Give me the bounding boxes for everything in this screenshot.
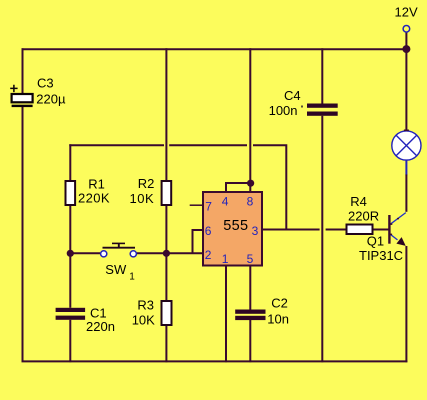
label R2 value 10K (130, 191, 155, 206)
wire pin 1 to bottom rail (225, 266, 227, 363)
wire pin 6 to pin 2 loop (193, 230, 204, 253)
label C3 value 220µ (36, 92, 66, 107)
pin 3 (252, 224, 259, 238)
label R3 (137, 298, 154, 313)
svg-text:100n: 100n (269, 103, 298, 118)
svg-text:R1: R1 (88, 177, 105, 192)
wire top rail 12V (22, 48, 408, 50)
svg-text:R4: R4 (350, 194, 367, 209)
wire lamp to collector blue stub (405, 160, 407, 175)
pin 6 (205, 224, 212, 238)
svg-text:6: 6 (205, 224, 212, 238)
wire SW1 left segment (70, 252, 100, 254)
capacitor C4 (307, 104, 338, 116)
wire feedback horizontal segment 1 (69, 144, 164, 146)
label R3 value 10K (132, 313, 155, 328)
resistor R2 (162, 181, 172, 205)
transistor Q1 emitter line (390, 234, 398, 240)
wire C4 branch lower to bottom rail (321, 116, 323, 362)
transistor Q1 collector line (390, 213, 406, 225)
svg-text:220R: 220R (348, 208, 379, 223)
lamp top connection tick (404, 130, 409, 132)
wire bottom rail (22, 360, 408, 362)
wire left rail lower (C3 to bottom) (22, 107, 24, 362)
svg-text:1: 1 (129, 272, 135, 283)
label C2 value 10n (267, 312, 289, 327)
wire pin 7 stub (190, 204, 203, 206)
svg-text:SW: SW (105, 262, 127, 277)
resistor R3 (162, 301, 172, 325)
switch SW1 (101, 243, 137, 257)
label Q1 (367, 233, 384, 248)
svg-text:C3: C3 (37, 76, 54, 91)
wire C4 branch upper (321, 48, 323, 103)
svg-text:R3: R3 (137, 298, 154, 313)
wire right rail junction to lamp (405, 49, 407, 131)
wire feedback horizontal segment 2 (169, 144, 247, 146)
label R4 value 220R (348, 208, 379, 223)
resistor R1 (66, 181, 76, 205)
label R1 value 220K (78, 191, 110, 206)
label Q1 type TIP31C (359, 248, 403, 263)
wire pin 8 vertical from top rail (249, 48, 251, 192)
wire collector vertical (405, 175, 407, 212)
junction R2 SW1 R3 pin2 (163, 250, 170, 257)
svg-text:C2: C2 (271, 295, 288, 310)
label R2 (138, 176, 155, 191)
svg-text:12V: 12V (395, 5, 418, 20)
capacitor C3 (12, 94, 33, 107)
label C4 (284, 88, 301, 103)
pin 8 (247, 195, 254, 209)
label C2 (271, 295, 288, 310)
svg-text:4: 4 (222, 195, 229, 209)
svg-text:220µ: 220µ (36, 92, 66, 107)
capacitor C2 (235, 310, 265, 321)
C3 polarity plus (10, 85, 17, 92)
label U1 555 (223, 218, 248, 234)
lamp LP1 (392, 131, 421, 160)
wire R2 R3 branch vertical (165, 48, 167, 362)
wire pin 3 output segment 1 (262, 229, 320, 231)
svg-text:2: 2 (205, 248, 212, 262)
pin 4 (222, 195, 229, 209)
label C1 value 220n (86, 319, 115, 334)
svg-text:555: 555 (223, 218, 248, 234)
svg-text:8: 8 (247, 195, 254, 209)
transistor Q1 base bar (388, 215, 390, 244)
svg-text:R2: R2 (138, 176, 155, 191)
resistor R4 (347, 225, 373, 235)
wire 12V terminal to junction (405, 32, 407, 49)
wire emitter to bottom rail (405, 246, 407, 362)
svg-text:220n: 220n (86, 319, 115, 334)
wire R4 to transistor base (373, 229, 390, 231)
pin 1 (222, 252, 229, 266)
label C3 (37, 76, 54, 91)
capacitor C1 (56, 308, 86, 320)
wire left rail upper (to C3) (22, 48, 24, 94)
power terminal 12V (403, 26, 410, 33)
pin 7 (205, 199, 212, 213)
junction R1 SW1 C1 (67, 250, 74, 257)
wire pin 5 to C2 (249, 266, 251, 310)
wire C2 to bottom rail (249, 320, 251, 362)
svg-text:10K: 10K (130, 191, 155, 206)
svg-text:10K: 10K (132, 313, 155, 328)
junction 12V top rail (402, 45, 410, 53)
svg-text:5: 5 (247, 252, 254, 266)
svg-text:220K: 220K (78, 191, 110, 206)
svg-text:10n: 10n (267, 312, 289, 327)
label C1 (90, 305, 107, 320)
wire C1 to bottom rail (69, 320, 71, 362)
svg-text:1: 1 (222, 252, 229, 266)
label C4 value 100n (269, 103, 298, 118)
wire feedback horizontal segment 3 and riser to pin 3 net (253, 145, 286, 229)
pin 5 (247, 252, 254, 266)
wire R1 branch vertical (69, 144, 71, 307)
svg-text:7: 7 (205, 199, 212, 213)
transistor Q1 emitter arrow (396, 237, 405, 246)
node 12V label (395, 5, 418, 20)
stray mark (301, 106, 303, 108)
label R4 (350, 194, 367, 209)
IC U1 555 timer body (203, 192, 262, 266)
wire pin 3 output segment 2 (326, 229, 347, 231)
junction pin4 pin8 (247, 180, 254, 187)
svg-text:C4: C4 (284, 88, 301, 103)
wire pin 4 link to pin 8 (226, 183, 250, 192)
svg-text:Q1: Q1 (367, 233, 384, 248)
svg-text:TIP31C: TIP31C (359, 248, 403, 263)
pin 2 (205, 248, 212, 262)
label R1 (88, 177, 105, 192)
svg-text:3: 3 (252, 224, 259, 238)
label SW1 (105, 262, 135, 283)
wire SW1 right to pin 2 (137, 252, 203, 254)
